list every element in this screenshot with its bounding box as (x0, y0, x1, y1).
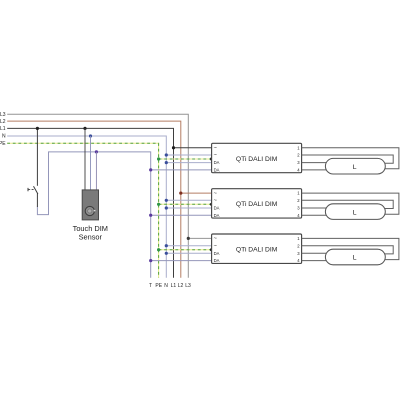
junction U1 chassis PE dot (210, 157, 213, 160)
svg-text:~: ~ (214, 191, 217, 197)
wire U1 pin1 to lamp LA1 (outer wrap) (302, 148, 399, 169)
wire PE tap to U3 chassis (159, 249, 212, 251)
svg-text:~: ~ (214, 153, 217, 159)
wire phase tap to U3 pin ~1 (188, 237, 211, 239)
svg-text:DA: DA (214, 168, 220, 173)
svg-text:L2: L2 (0, 119, 6, 125)
svg-text:DA: DA (214, 206, 220, 211)
wire T net (push-button to DALI bus) (37, 152, 150, 278)
wire N tap to U2 pin ~2 (166, 199, 211, 201)
wire N tap to U3 pin ~2 (166, 245, 211, 247)
op-amp U2: QTi DALI DIM ballast (212, 189, 302, 218)
svg-text:L3: L3 (185, 283, 191, 289)
junction N/sensor (89, 134, 92, 137)
wire sensor N (90, 136, 92, 190)
junction L1/sensor (83, 127, 86, 130)
svg-text:L: L (353, 209, 357, 216)
lamp LA1 (325, 158, 385, 174)
wire L1 rail (7, 128, 173, 277)
wire U1 pin4 to lamp LA1 (302, 169, 327, 171)
junction T/U1 (149, 168, 152, 171)
wire PE rail (green/yellow dashed) (7, 143, 158, 277)
junction T/U2 (149, 214, 152, 217)
op-amp U1: QTi DALI DIM ballast (212, 143, 302, 172)
junction N-DA/U3 (165, 252, 168, 255)
svg-text:N: N (2, 134, 6, 140)
wire U2 pin1 to lamp LA2 (outer wrap) (302, 193, 399, 214)
wire N tap to U2 pin DA1 (166, 207, 211, 209)
wire T tap to U3 pin DA2 (151, 260, 212, 262)
junction N/U3 (165, 244, 168, 247)
junction T/sensor (95, 150, 98, 153)
svg-text:T: T (149, 283, 152, 289)
wire U3 pin3 to lamp LA3 (302, 252, 327, 254)
svg-text:L: L (353, 164, 357, 171)
wire phase tap to U1 pin ~1 (174, 147, 212, 149)
wire N tap to U1 pin ~2 (166, 154, 211, 156)
wire T tap to U2 pin DA2 (151, 214, 212, 216)
junction N/U2 (165, 199, 168, 202)
svg-text:L2: L2 (178, 283, 184, 289)
wire L1 drop to switch (36, 128, 38, 185)
wire U3 pin2 to lamp LA3 (inner wrap) (302, 246, 394, 254)
wire N tap to U3 pin DA1 (166, 252, 211, 254)
svg-text:DA: DA (214, 251, 220, 256)
wire U1 pin2 to lamp LA1 (inner wrap) (302, 155, 394, 163)
wire U1 pin3 to lamp LA1 (302, 162, 327, 164)
svg-text:PE: PE (0, 141, 6, 147)
junction PE/U3 (157, 248, 160, 251)
junction PE/U1 (157, 157, 160, 160)
svg-text:L3: L3 (0, 112, 6, 118)
switch S1 (momentary push-button) (34, 186, 38, 194)
wire N rail (7, 136, 166, 278)
svg-text:DA: DA (214, 160, 220, 165)
svg-text:DA: DA (214, 258, 220, 263)
junction phase/U3 (187, 237, 190, 240)
wire U2 pin3 to lamp LA2 (302, 207, 327, 209)
svg-text:L: L (353, 255, 357, 262)
wire L2 rail (7, 121, 181, 278)
svg-text:DA: DA (214, 213, 220, 218)
wire U3 pin4 to lamp LA3 (302, 260, 327, 262)
wire PE tap to U1 chassis (159, 158, 212, 160)
wire N tap to U1 pin DA1 (166, 162, 211, 164)
junction U3 chassis PE dot (210, 248, 213, 251)
wire U3 pin1 to lamp LA3 (outer wrap) (302, 238, 399, 259)
junction L1/switch (36, 127, 39, 130)
wire PE tap to U2 chassis (159, 203, 212, 205)
svg-text:L1: L1 (171, 283, 177, 289)
wire sensor DA (95, 152, 97, 190)
wire phase tap to U2 pin ~1 (181, 192, 212, 194)
svg-text:~: ~ (214, 236, 217, 242)
Touch DIM Sensor body (82, 190, 98, 220)
svg-text:~: ~ (214, 243, 217, 249)
svg-text:~: ~ (214, 145, 217, 151)
wire U2 pin2 to lamp LA2 (inner wrap) (302, 200, 394, 208)
svg-text:QTi DALI DIM: QTi DALI DIM (236, 247, 278, 254)
svg-text:~: ~ (214, 198, 217, 204)
junction N/U1 (165, 153, 168, 156)
junction phase/U1 (172, 146, 175, 149)
svg-text:QTi DALI DIM: QTi DALI DIM (236, 201, 278, 208)
junction N-DA/U2 (165, 206, 168, 209)
op-amp U3: QTi DALI DIM ballast (212, 234, 302, 263)
svg-text:N: N (164, 283, 168, 289)
lamp LA3 (325, 249, 385, 265)
lamp LA2 (325, 204, 385, 220)
svg-text:QTi DALI DIM: QTi DALI DIM (236, 156, 278, 163)
junction phase/U2 (179, 192, 182, 195)
junction N-DA/U1 (165, 161, 168, 164)
wire T tap to U1 pin DA2 (151, 169, 212, 171)
svg-text:PE: PE (155, 283, 162, 289)
wire sensor L (84, 128, 86, 190)
junction U2 chassis PE dot (210, 203, 213, 206)
junction PE/U2 (157, 203, 160, 206)
svg-text:L1: L1 (0, 126, 6, 132)
wire U2 pin4 to lamp LA2 (302, 214, 327, 216)
wire L3 rail (7, 114, 188, 277)
svg-text:Sensor: Sensor (79, 233, 103, 242)
junction T/U3 (149, 259, 152, 262)
